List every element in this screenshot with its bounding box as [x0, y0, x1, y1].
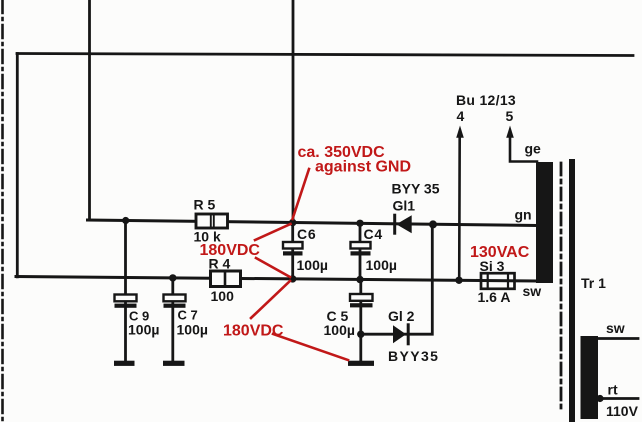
connector Bu 12/13 pin 5 arrow: [456, 92, 537, 162]
connector Bu 12/13 pin 4 arrow: [456, 108, 464, 280]
transformer Tr1 secondary winding (ge/gn/sw): [515, 141, 554, 300]
wire C6 branch: [291, 223, 294, 279]
wire C4 branch: [359, 223, 362, 279]
node C4 bottom junction: [356, 276, 363, 283]
capacitor C9: [114, 295, 159, 366]
wire vertical from top edge to upper rail: [88, 0, 91, 220]
svg-text:100µ: 100µ: [366, 257, 397, 273]
capacitor C4: [351, 226, 397, 273]
capacitor C6: [283, 226, 328, 273]
node C5 / Gl2 junction: [357, 331, 364, 338]
svg-text:Tr 1: Tr 1: [581, 275, 606, 291]
svg-text:Gl1: Gl1: [393, 198, 416, 214]
annotation 180VDC (upper): [200, 224, 291, 277]
node C6 top junction: [289, 219, 296, 226]
svg-text:100µ: 100µ: [324, 322, 355, 338]
wire Gl2 branch from upper rail: [361, 224, 432, 334]
svg-text:Bu 12/13: Bu 12/13: [456, 92, 516, 108]
resistor R5: [194, 197, 228, 245]
svg-text:180VDC: 180VDC: [200, 242, 261, 259]
svg-text:180VDC: 180VDC: [223, 323, 284, 340]
svg-text:C6: C6: [297, 226, 317, 242]
svg-text:4: 4: [457, 108, 465, 124]
diode Gl1 (BYY 35): [392, 181, 440, 234]
svg-text:100: 100: [211, 288, 235, 304]
svg-text:1.6 A: 1.6 A: [478, 289, 511, 305]
svg-text:100µ: 100µ: [128, 322, 159, 338]
svg-text:BYY35: BYY35: [388, 348, 439, 364]
svg-text:130VAC: 130VAC: [470, 244, 530, 261]
wire C5 branch: [359, 280, 362, 362]
node Gl2 branch junction: [429, 220, 437, 228]
capacitor C5: [324, 294, 375, 366]
svg-text:against GND: against GND: [315, 159, 411, 176]
svg-text:C 7: C 7: [178, 308, 198, 323]
annotation 180VDC (lower): [223, 281, 348, 360]
wire C7 branch: [171, 278, 174, 361]
node C6 bottom junction: [289, 275, 296, 282]
annotation ca. 350VDC against GND: [293, 144, 412, 219]
node C7 junction: [169, 274, 176, 281]
svg-text:gn: gn: [515, 207, 532, 223]
wire vertical from top edge to node at C6: [292, 0, 295, 223]
svg-text:100µ: 100µ: [297, 257, 328, 273]
transformer core (dash-dot): [560, 163, 563, 411]
svg-text:BYY 35: BYY 35: [392, 181, 440, 197]
fuse Si3 1.6A: [478, 258, 515, 305]
svg-text:100µ: 100µ: [177, 322, 208, 338]
resistor R4: [209, 256, 241, 305]
svg-text:rt: rt: [608, 382, 618, 398]
wire top bus: [17, 54, 633, 56]
svg-text:5: 5: [506, 108, 514, 124]
svg-text:sw: sw: [606, 320, 625, 336]
svg-text:R 5: R 5: [194, 197, 216, 213]
svg-text:C4: C4: [364, 226, 384, 242]
node C4 top junction: [356, 220, 363, 227]
svg-text:ge: ge: [525, 141, 542, 157]
svg-text:Gl 2: Gl 2: [388, 308, 415, 324]
transformer 110V winding (sw/rt): [581, 320, 639, 419]
node C9 top junction: [122, 217, 129, 224]
wire left vertical branch: [16, 54, 19, 277]
svg-text:sw: sw: [523, 283, 542, 299]
wire lower DC rail: [16, 277, 536, 282]
node Bu pin4 junction: [455, 277, 462, 284]
transformer primary winding bar: [569, 162, 575, 422]
svg-text:110V: 110V: [606, 403, 639, 419]
diode Gl2 (BYY35): [388, 308, 439, 364]
wire C9 branch: [124, 221, 127, 362]
wire upper DC rail: [88, 220, 537, 226]
capacitor C7: [163, 295, 208, 366]
